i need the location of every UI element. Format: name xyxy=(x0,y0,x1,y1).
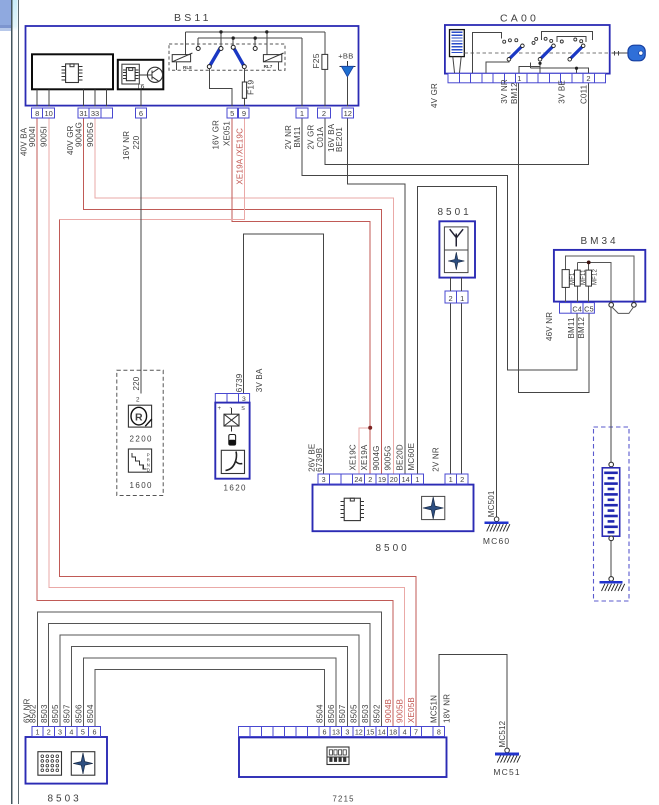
svg-text:8501: 8501 xyxy=(438,207,472,218)
svg-text:BM12: BM12 xyxy=(510,82,519,104)
svg-text:3V NR: 3V NR xyxy=(500,79,509,104)
svg-text:14: 14 xyxy=(402,475,410,484)
svg-text:24: 24 xyxy=(354,475,362,484)
svg-text:+: + xyxy=(218,406,222,412)
svg-text:6739: 6739 xyxy=(235,373,244,392)
svg-text:XE051: XE051 xyxy=(222,121,231,146)
svg-text:2: 2 xyxy=(136,396,140,403)
svg-text:6739B: 6739B xyxy=(315,448,324,472)
svg-text:8504: 8504 xyxy=(86,704,95,723)
svg-text:2V GR: 2V GR xyxy=(307,124,316,149)
svg-text:1: 1 xyxy=(415,475,419,484)
svg-text:XE19A: XE19A xyxy=(360,444,369,470)
svg-text:1: 1 xyxy=(36,727,40,736)
svg-text:MC51: MC51 xyxy=(493,767,520,777)
svg-text:8506: 8506 xyxy=(74,704,83,723)
svg-text:2V NR: 2V NR xyxy=(431,447,440,472)
svg-text:1: 1 xyxy=(449,475,453,484)
svg-text:MC60E: MC60E xyxy=(407,443,416,471)
svg-text:BS11: BS11 xyxy=(174,12,212,24)
svg-text:5: 5 xyxy=(230,109,234,118)
svg-text:9: 9 xyxy=(242,109,246,118)
svg-text:12: 12 xyxy=(355,728,363,737)
svg-text:R: R xyxy=(135,411,143,423)
svg-text:18V NR: 18V NR xyxy=(442,694,451,723)
svg-text:9005I: 9005I xyxy=(40,126,49,147)
svg-text:MC512: MC512 xyxy=(498,720,507,747)
svg-text:8502: 8502 xyxy=(29,704,38,723)
svg-text:9005G: 9005G xyxy=(86,122,95,147)
svg-text:C01A: C01A xyxy=(316,126,325,147)
svg-text:2: 2 xyxy=(449,294,453,303)
svg-text:XE05B: XE05B xyxy=(407,697,416,723)
svg-text:18: 18 xyxy=(389,728,397,737)
svg-text:8507: 8507 xyxy=(63,704,72,723)
svg-text:8504: 8504 xyxy=(315,704,324,723)
svg-text:9005G: 9005G xyxy=(384,445,393,470)
svg-text:C4: C4 xyxy=(572,304,581,313)
svg-text:3: 3 xyxy=(58,727,62,736)
svg-text:4: 4 xyxy=(403,728,407,737)
svg-text:8505: 8505 xyxy=(51,704,60,723)
svg-text:8507: 8507 xyxy=(338,704,347,723)
svg-text:8502: 8502 xyxy=(373,704,382,723)
svg-text:20: 20 xyxy=(390,475,398,484)
svg-text:+BB: +BB xyxy=(338,51,353,60)
svg-text:9005B: 9005B xyxy=(395,699,404,723)
svg-text:BM12: BM12 xyxy=(577,316,586,338)
svg-text:7: 7 xyxy=(414,728,418,737)
svg-text:MC60: MC60 xyxy=(483,536,510,546)
svg-text:14: 14 xyxy=(378,728,386,737)
svg-text:8503: 8503 xyxy=(48,794,82,805)
svg-text:CA00: CA00 xyxy=(500,13,539,25)
svg-text:6: 6 xyxy=(139,109,143,118)
svg-text:BM34: BM34 xyxy=(581,236,619,247)
svg-text:MF11: MF11 xyxy=(581,269,587,285)
svg-text:MC501: MC501 xyxy=(487,490,496,517)
svg-text:2: 2 xyxy=(322,109,326,118)
svg-text:1: 1 xyxy=(517,74,521,83)
svg-text:15: 15 xyxy=(366,728,374,737)
svg-text:MF1: MF1 xyxy=(570,272,576,285)
svg-text:31: 31 xyxy=(79,109,87,118)
svg-text:C5: C5 xyxy=(584,304,593,313)
svg-text:8: 8 xyxy=(437,728,441,737)
svg-text:2: 2 xyxy=(47,727,51,736)
svg-text:2200: 2200 xyxy=(130,434,153,443)
svg-text:9004I: 9004I xyxy=(28,126,37,147)
svg-text:1620: 1620 xyxy=(224,483,247,492)
svg-text:C011: C011 xyxy=(580,84,589,104)
svg-text:6: 6 xyxy=(92,727,96,736)
svg-text:9004G: 9004G xyxy=(372,445,381,470)
svg-text:4: 4 xyxy=(69,727,73,736)
svg-text:3V BA: 3V BA xyxy=(255,368,264,392)
svg-text:8503: 8503 xyxy=(361,704,370,723)
svg-text:XE19A /XE19C: XE19A /XE19C xyxy=(236,128,245,185)
svg-text:2: 2 xyxy=(460,475,464,484)
svg-text:8505: 8505 xyxy=(350,704,359,723)
svg-text:33: 33 xyxy=(91,109,99,118)
svg-text:F25: F25 xyxy=(311,53,321,68)
svg-text:12: 12 xyxy=(344,109,352,118)
svg-text:9004G: 9004G xyxy=(75,122,84,147)
svg-text:3: 3 xyxy=(345,728,349,737)
svg-text:40V BA: 40V BA xyxy=(19,127,28,156)
svg-text:7215: 7215 xyxy=(333,795,355,804)
svg-text:2V NR: 2V NR xyxy=(284,125,293,150)
svg-text:1: 1 xyxy=(460,294,464,303)
svg-text:13: 13 xyxy=(332,728,340,737)
svg-text:8506: 8506 xyxy=(327,704,336,723)
svg-text:220: 220 xyxy=(132,135,141,149)
svg-text:3V BE: 3V BE xyxy=(558,80,567,104)
svg-text:2: 2 xyxy=(368,475,372,484)
svg-text:BM11: BM11 xyxy=(293,126,302,147)
svg-text:MC51N: MC51N xyxy=(430,695,439,723)
svg-text:F19: F19 xyxy=(246,80,256,95)
svg-text:MF12: MF12 xyxy=(593,268,599,285)
svg-text:RL7: RL7 xyxy=(264,64,273,69)
svg-text:8503: 8503 xyxy=(40,704,49,723)
svg-text:2: 2 xyxy=(586,74,590,83)
svg-text:3: 3 xyxy=(322,475,326,484)
svg-text:16V NR: 16V NR xyxy=(122,131,131,160)
svg-text:RL8: RL8 xyxy=(183,65,192,70)
svg-text:16V GR: 16V GR xyxy=(211,120,220,150)
svg-text:1: 1 xyxy=(300,109,304,118)
svg-text:40V GR: 40V GR xyxy=(66,125,75,155)
svg-text:8500: 8500 xyxy=(376,543,410,554)
svg-text:220: 220 xyxy=(132,376,141,390)
svg-text:6: 6 xyxy=(323,728,327,737)
svg-text:BE20D: BE20D xyxy=(395,444,404,470)
svg-text:BM11: BM11 xyxy=(567,317,576,338)
svg-text:9004B: 9004B xyxy=(384,699,393,723)
svg-text:4V GR: 4V GR xyxy=(430,83,439,108)
svg-text:BE201: BE201 xyxy=(335,127,344,152)
svg-text:8: 8 xyxy=(35,109,39,118)
svg-text:46V NR: 46V NR xyxy=(545,312,554,341)
svg-text:S: S xyxy=(241,406,245,412)
svg-text:XE19C: XE19C xyxy=(348,444,357,470)
svg-text:1600: 1600 xyxy=(130,481,153,490)
svg-text:5: 5 xyxy=(81,727,85,736)
svg-text:10: 10 xyxy=(44,109,52,118)
svg-text:19: 19 xyxy=(378,475,386,484)
